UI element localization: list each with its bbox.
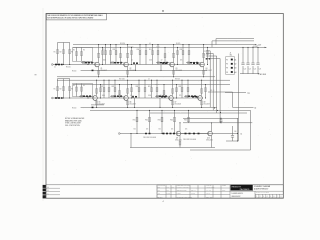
wire row3 out right <box>213 133 238 135</box>
svg-text:NOT BE REPRODUCED OR USED WITH: NOT BE REPRODUCED OR USED WITHOUT WRITTE… <box>47 17 93 19</box>
svg-text:VTVM, CONTROLS SET: VTVM, CONTROLS SET <box>65 123 81 125</box>
svg-text:.02: .02 <box>161 60 163 62</box>
resistor resistor R17B <box>164 54 166 58</box>
resistor series row1 input network <box>55 64 57 66</box>
wire collector Q5 <box>96 80 98 96</box>
svg-text:R34: R34 <box>170 120 173 122</box>
resistor collector load Q7 <box>172 89 174 93</box>
wire resistor R16 <box>152 45 154 65</box>
diode CR33 <box>170 133 172 135</box>
wire drop row1 a <box>135 65 137 71</box>
wire emitter Q1 <box>98 67 100 77</box>
svg-text:R31: R31 <box>133 120 136 122</box>
svg-text:2-12-68: 2-12-68 <box>191 193 195 195</box>
junction resistor R26 <box>151 80 152 81</box>
svg-text:CR1-CR4 1901-0040: CR1-CR4 1901-0040 <box>143 137 156 139</box>
connector pin contact 2 <box>231 63 233 65</box>
wire row3 mid <box>181 133 207 135</box>
svg-text:Q2: Q2 <box>129 68 131 70</box>
svg-text:R3: R3 <box>71 88 73 90</box>
wire emitter Q9 <box>179 136 181 148</box>
wire resistor R17B <box>164 47 166 64</box>
diode CR5 row3 mid <box>185 133 187 135</box>
resistor resistor R23 <box>114 88 116 92</box>
capacitor series Q4 input <box>196 62 198 64</box>
resistor R202 <box>63 79 65 98</box>
diode CR1 row1 <box>193 62 195 64</box>
transistor Q8 <box>198 96 203 101</box>
transistor Q3 <box>170 62 175 67</box>
wire row2 bottom return <box>81 106 217 108</box>
svg-text:R35: R35 <box>184 120 187 122</box>
wire row2 out C corner <box>208 91 233 93</box>
revision row line 1 <box>46 187 60 189</box>
svg-text:P3: P3 <box>226 68 228 70</box>
capacitor series Q5 input <box>89 95 91 97</box>
wire row3 left drop <box>130 134 132 148</box>
junction resistor R19 <box>188 44 189 45</box>
svg-text:Q8: Q8 <box>203 101 205 103</box>
capacitor series Q7 input <box>165 95 167 97</box>
junction resistor R14 <box>139 44 140 45</box>
wire emitter Q2 <box>127 67 129 77</box>
wire drop 4 row3 <box>174 110 176 133</box>
wire base feed Q7 <box>155 95 169 97</box>
capacitor series Q6 input <box>120 95 122 97</box>
junction resistor R24 <box>138 80 139 81</box>
resistor resistor R29 <box>187 88 189 92</box>
wire resistor R17 <box>157 45 159 65</box>
svg-text:C1: C1 <box>54 67 56 69</box>
svg-text:C9 .01: C9 .01 <box>211 90 215 92</box>
wire row1 signal line <box>53 64 205 66</box>
resistor series Q8 input <box>185 95 187 97</box>
resistor R31 drop <box>136 117 138 122</box>
svg-text:CHK: CHK <box>167 187 170 189</box>
junction dots Q8 <box>201 80 202 81</box>
svg-text:DEC .XX: DEC .XX <box>191 190 196 192</box>
revision strip top line <box>46 184 283 186</box>
svg-text:A1 GND: A1 GND <box>260 73 267 76</box>
junction dots Q5 <box>96 80 97 81</box>
revision tab block C <box>43 192 46 195</box>
wire interconnect 3 stub <box>206 55 217 57</box>
wire emitter Q6 <box>127 100 129 107</box>
svg-text:R4: R4 <box>73 85 75 87</box>
wire row1 bottom return <box>57 76 215 78</box>
resistor resistor R27A <box>119 91 121 95</box>
resistor R33 drop <box>161 117 163 122</box>
resistor series row2 input network <box>55 97 57 99</box>
svg-text:.XX ±.02: .XX ±.02 <box>206 190 211 192</box>
wire collector Q9 <box>179 123 181 132</box>
capacitor C31 row2 <box>132 96 134 98</box>
junction dots Q3 <box>173 44 174 45</box>
wire row1 left tie <box>58 42 70 44</box>
resistor resistor R11 <box>105 51 107 55</box>
wire resistor R26 <box>151 80 153 98</box>
svg-text:R1: R1 <box>54 88 56 90</box>
wire row3 signal line <box>120 133 214 135</box>
svg-text:R5 215: R5 215 <box>66 67 71 69</box>
resistor collector load Q1 <box>98 53 100 57</box>
transistor Q7 <box>169 96 174 101</box>
svg-text:1854-0071: 1854-0071 <box>98 103 105 105</box>
wire resistor R29 <box>187 80 189 98</box>
resistor bias Q7 <box>176 85 178 99</box>
diode CR32 <box>166 133 168 135</box>
wire emitter Q5 <box>96 100 98 107</box>
resistor series Q3 input <box>157 62 159 64</box>
wire resistor R24 <box>138 80 140 98</box>
svg-text:825: 825 <box>179 95 181 97</box>
wire collector Q4 <box>203 45 205 63</box>
svg-text:R8 1000: R8 1000 <box>120 43 125 45</box>
revision row line 2 <box>46 190 60 192</box>
resistor resistor R13 <box>115 51 117 55</box>
junction row2 right <box>214 107 215 108</box>
wire base feed Q2 <box>110 62 124 64</box>
wire emitter Q10 <box>211 136 213 148</box>
svg-text:Q10: Q10 <box>207 138 210 140</box>
connector pin contact 3 <box>231 67 233 69</box>
wire vertical row3 right <box>237 118 239 141</box>
svg-text:P1: P1 <box>226 59 228 61</box>
arrow gnd <box>258 73 260 75</box>
wire resistor R22 <box>108 80 110 98</box>
svg-text:R18: R18 <box>180 49 183 51</box>
svg-text:SHEET 1 OF 2 SHEETS: SHEET 1 OF 2 SHEETS <box>256 192 269 194</box>
resistor R35 drop <box>188 117 190 122</box>
bus +20V row1 <box>73 44 256 46</box>
junction resistor R17A <box>120 47 121 48</box>
svg-text:MODEL: MODEL <box>222 185 226 187</box>
svg-text:R1: R1 <box>54 51 56 53</box>
wire vertical interconnect F <box>250 110 252 150</box>
resistor series Q4 input <box>187 62 189 64</box>
sheet box row <box>256 194 284 198</box>
wire row2 left tie <box>58 78 70 80</box>
resistor emitter Q2 <box>127 70 129 74</box>
resistor emitter Q5 <box>96 101 98 105</box>
svg-text:Q5: Q5 <box>98 101 100 103</box>
title block outline <box>157 185 283 198</box>
svg-text:R5: R5 <box>83 50 85 52</box>
connector pin contact 4 <box>231 71 233 73</box>
wire resistor R28 <box>181 80 183 98</box>
svg-text:C20: C20 <box>244 69 247 71</box>
junction resistor R15 <box>145 44 146 45</box>
wire base feed Q8 <box>184 95 198 97</box>
junction resistor R29 <box>187 80 188 81</box>
diode CR34 <box>173 133 175 135</box>
wire drop 5 row3 <box>188 110 190 122</box>
junction dots Q2 <box>127 44 128 45</box>
svg-text:ENG: ENG <box>172 187 175 189</box>
svg-text:R14: R14 <box>137 49 140 51</box>
wire interconnect 2 stub <box>206 52 213 54</box>
junction dots Q6 <box>127 80 128 81</box>
svg-text:R32: R32 <box>145 120 148 122</box>
svg-text:R2: R2 <box>60 88 62 90</box>
revision tab block B <box>43 188 46 191</box>
wire drop 2 row3 <box>149 110 151 133</box>
junction resistor R23 <box>114 80 115 81</box>
svg-text:FINISH: FINISH <box>177 193 181 195</box>
junction resistor R22 <box>108 80 109 81</box>
svg-text:FULL CCW POSITION.: FULL CCW POSITION. <box>65 125 81 127</box>
revision tab block A <box>43 185 46 188</box>
resistor R101 <box>57 43 59 65</box>
resistor resistor R27B <box>163 91 165 95</box>
resistor bias Q2 <box>131 47 133 64</box>
arrow +12.6V <box>265 47 267 48</box>
bus +20V row2 <box>57 79 230 81</box>
svg-text:C40: C40 <box>234 131 237 133</box>
svg-text:C12: C12 <box>204 51 207 53</box>
resistor R203 <box>69 79 71 98</box>
resistor R32 drop <box>149 117 151 122</box>
diode CR11 right of Q4 <box>209 58 211 59</box>
wire resistor R15 <box>145 45 147 65</box>
wire interconnect 2 vertical <box>212 53 214 110</box>
bus +12V row1 <box>73 46 267 48</box>
capacitor C40 row3 <box>232 126 234 136</box>
resistor series Q2 input <box>111 62 113 64</box>
svg-text:1853-0020: 1853-0020 <box>206 140 213 142</box>
svg-text:Q4: Q4 <box>205 68 207 70</box>
svg-text:Q6: Q6 <box>129 101 131 103</box>
resistor bias Q6 <box>131 85 133 99</box>
junction resistor R25 <box>144 80 145 81</box>
svg-text:.02: .02 <box>160 95 162 97</box>
wire row2 emitter tie short <box>91 104 104 106</box>
svg-text:R.S: R.S <box>167 190 169 192</box>
svg-text:C22: C22 <box>254 69 257 71</box>
revision row line 3 <box>46 194 60 196</box>
svg-text:CR5-CR8 1901-0040: CR5-CR8 1901-0040 <box>183 139 196 141</box>
capacitor bypass C21 <box>247 47 249 63</box>
resistor emitter Q7 <box>172 101 174 105</box>
svg-text:825: 825 <box>134 129 136 131</box>
wire base feed Q1 <box>81 62 95 64</box>
capacitor bypass C20 <box>242 47 244 63</box>
wire drop row1 b <box>160 65 162 71</box>
svg-text:R16: R16 <box>149 49 152 51</box>
resistor resistor R21 <box>103 88 105 92</box>
wire collector Q7 <box>172 80 174 96</box>
svg-text:C4 .01: C4 .01 <box>156 46 160 48</box>
junction resistor R21 <box>103 80 104 81</box>
wire row2 interconnect bus A <box>90 109 251 111</box>
svg-text:J1: J1 <box>230 53 232 55</box>
resistor bias Q5 <box>100 85 102 99</box>
svg-text:825: 825 <box>146 129 148 131</box>
svg-text:4640: 4640 <box>102 95 105 97</box>
resistor resistor R19 <box>188 51 190 55</box>
wire interconnect 4 vertical <box>219 59 221 123</box>
wire collector Q2 <box>127 45 129 63</box>
resistor R25 in box <box>81 84 83 97</box>
svg-text:P2: P2 <box>226 64 228 66</box>
resistor emitter Q4 <box>203 70 205 74</box>
wire collector Q8 <box>201 80 203 96</box>
wire drop 1 row3 <box>136 110 138 133</box>
resistor collector load Q3 <box>173 53 175 57</box>
wire interconnect 4 stub <box>206 58 220 60</box>
wire collector Q6 <box>127 80 129 96</box>
capacitor C35 between links <box>220 118 222 120</box>
svg-text:R6 100: R6 100 <box>72 107 76 109</box>
resistor emitter Q8 <box>201 101 203 105</box>
wire resistor R12 <box>110 45 112 65</box>
wire box drop row1 <box>87 61 89 64</box>
wire emitter Q8 <box>201 100 203 107</box>
svg-text:TP2: TP2 <box>247 93 250 95</box>
svg-text:Q9: Q9 <box>176 138 178 140</box>
capacitor series Q8 input <box>194 95 196 97</box>
resistor resistor R24 <box>138 88 140 92</box>
diode CR2 row2 <box>192 96 194 98</box>
wire resistor R27 <box>156 80 158 98</box>
resistor collector load Q8 <box>201 89 203 93</box>
wire row3 lower bus <box>190 149 251 151</box>
wire collector Q1 <box>98 45 100 63</box>
resistor resistor R14 <box>139 51 141 55</box>
relay box K2 row2 <box>73 84 93 97</box>
title block horizontals <box>157 187 230 189</box>
svg-text:SEE ENGR RESP: SEE ENGR RESP <box>177 190 187 192</box>
junction resistor R18 <box>182 44 183 45</box>
diode CR8 row3 mid <box>198 133 200 135</box>
svg-text:R33: R33 <box>158 120 161 122</box>
wire riser +12V <box>211 41 213 48</box>
wire interconnect 1 stub <box>206 50 210 52</box>
resistor series Q1 input <box>82 62 84 64</box>
wire interconnect 3 vertical <box>216 56 218 113</box>
resistor resistor R28 <box>181 88 183 92</box>
svg-text:R4: R4 <box>73 50 75 52</box>
svg-text:C21: C21 <box>249 69 252 71</box>
svg-text:R21: R21 <box>101 86 104 88</box>
svg-text:B: B <box>48 190 49 192</box>
bus +12V row2 <box>73 84 230 86</box>
wire resistor R14 <box>139 45 141 65</box>
wire interconnect 1 vertical <box>209 51 211 108</box>
wire resistor R25 <box>144 80 146 98</box>
connector XA1 outline <box>226 57 235 75</box>
svg-text:R5: R5 <box>83 85 85 87</box>
resistor emitter Q1 <box>98 70 100 74</box>
resistor resistor R25 <box>144 88 146 92</box>
title block divider below logo <box>252 185 254 191</box>
junction resistor R17B <box>164 47 165 48</box>
transistor Q4 <box>200 62 205 67</box>
junction row3 right <box>237 133 238 134</box>
wire base feed Q6 <box>110 95 124 97</box>
wire emitter Q4 <box>203 67 205 77</box>
wire resistor R18 <box>182 45 184 65</box>
connector pin contact 1 <box>231 59 233 61</box>
resistor R103 <box>69 43 71 65</box>
wire base feed Q5 <box>79 95 93 97</box>
wire row3 bottom return <box>130 147 215 149</box>
junction row2 left <box>57 97 58 98</box>
resistor collector load Q6 <box>127 89 129 93</box>
svg-text:Q7: Q7 <box>174 101 176 103</box>
svg-text:.01: .01 <box>149 43 151 45</box>
svg-text:R10 2150: R10 2150 <box>128 46 134 48</box>
transistor Q6 <box>124 96 129 101</box>
capacitor C6 row1 <box>162 62 164 64</box>
transistor Q2 <box>124 62 129 67</box>
svg-text:825: 825 <box>180 60 182 62</box>
resistor resistor R12 <box>110 51 112 55</box>
svg-text:DRN: DRN <box>158 187 161 189</box>
wire row2 signal line <box>53 97 204 99</box>
junction dots Q4 <box>203 44 204 45</box>
resistor resistor R22 <box>108 88 110 92</box>
svg-text:D-08405-90012-1: D-08405-90012-1 <box>232 193 244 195</box>
svg-text:R24: R24 <box>136 86 139 88</box>
revision tab block D <box>43 195 46 198</box>
resistor series Q5 input <box>80 95 82 97</box>
wire resistor R27B <box>163 85 165 99</box>
resistor R26 on emitter bus <box>92 107 94 109</box>
resistor resistor R17 <box>157 51 159 55</box>
relay box K1 row1 <box>73 48 93 62</box>
resistor resistor R17A <box>120 54 122 58</box>
wire resistor R19 <box>188 45 190 65</box>
resistor resistor R16 <box>152 51 154 55</box>
junction dots Q1 <box>98 44 99 45</box>
wire resistor R13 <box>115 45 117 65</box>
svg-text:1853-0020: 1853-0020 <box>174 103 181 105</box>
resistor collector load Q5 <box>96 89 98 93</box>
transistor Q1 <box>95 62 100 67</box>
svg-text:.01: .01 <box>131 60 133 62</box>
svg-text:4640: 4640 <box>103 60 106 62</box>
wire row2 out D <box>225 92 246 94</box>
resistor bias Q8 <box>205 85 207 99</box>
wire drop row2 b <box>159 98 161 107</box>
svg-text:1854-0071: 1854-0071 <box>129 103 136 105</box>
resistor resistor R18 <box>182 51 184 55</box>
svg-text:R28: R28 <box>179 86 182 88</box>
resistor series Q7 input <box>156 95 158 97</box>
svg-text:R23: R23 <box>112 86 115 88</box>
resistor resistor R27 <box>156 88 158 92</box>
wire collector Q10 <box>211 123 213 132</box>
wire resistor R27A <box>119 85 121 99</box>
wire row2 to row3 link B <box>183 122 252 124</box>
svg-text:R6 100: R6 100 <box>72 70 76 72</box>
wire drop 3 row3 <box>161 110 163 133</box>
svg-text:R2: R2 <box>60 51 62 53</box>
junction resistor R28 <box>181 80 182 81</box>
transistor Q10 <box>208 131 213 136</box>
wire base feed Q4 <box>186 62 200 64</box>
resistor collector load Q4 <box>203 53 205 57</box>
junction resistor R12 <box>110 44 111 45</box>
wire drop row2 a <box>134 98 136 107</box>
svg-text:DWG NO.: DWG NO. <box>207 185 213 187</box>
svg-text:1000: 1000 <box>148 95 151 97</box>
terminal J2 input row2 <box>51 97 53 99</box>
svg-text:R26: R26 <box>148 86 151 88</box>
capacitor C5 row1 <box>133 62 135 64</box>
resistor resistor R15 <box>145 51 147 55</box>
